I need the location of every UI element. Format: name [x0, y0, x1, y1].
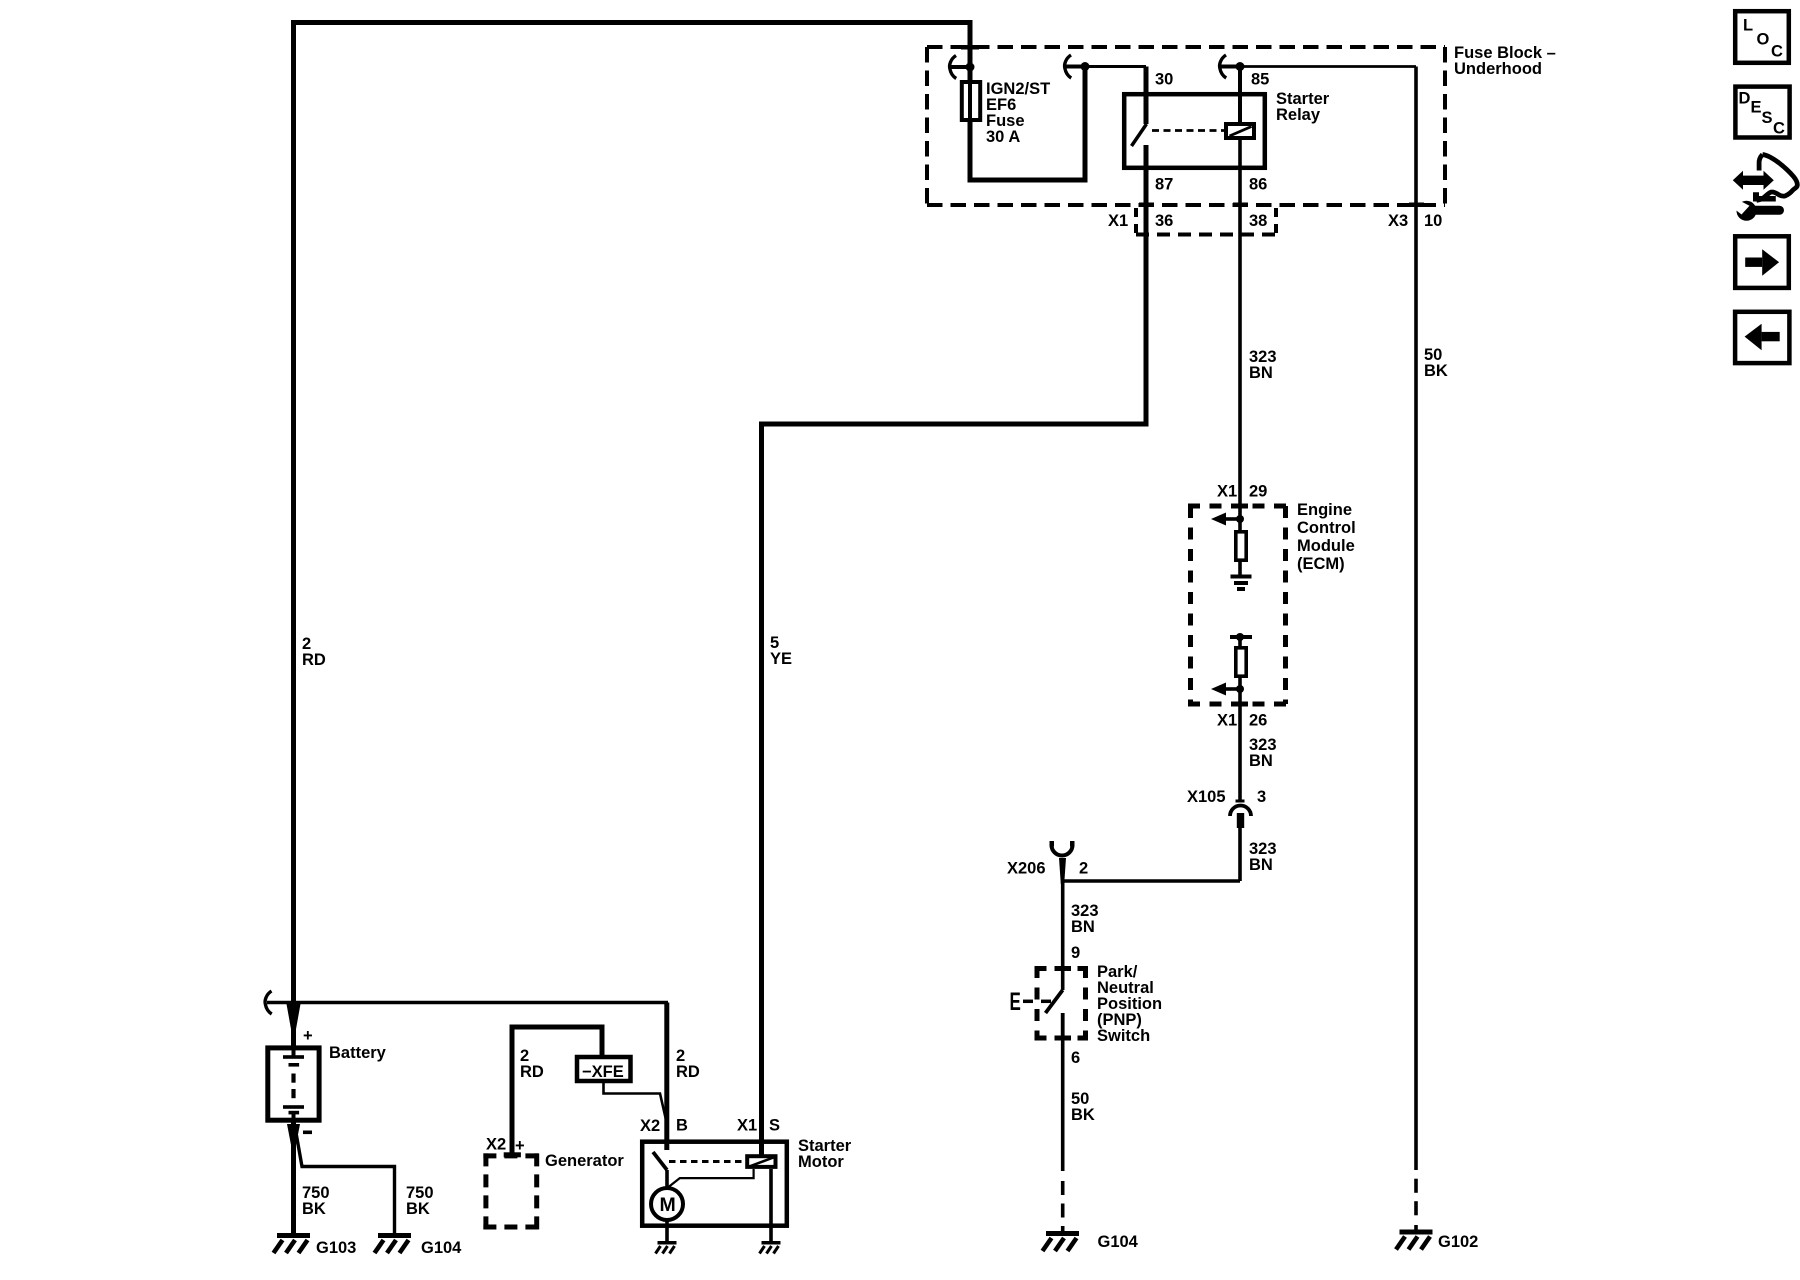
- ECM internal ground: [1231, 575, 1252, 579]
- wire T-bar to resistor 2: [1238, 637, 1242, 647]
- connector X105 wire end tick: [1236, 800, 1245, 803]
- ticks where wires cross fuse block bottom edge: [1139, 203, 1154, 208]
- wire from fuse bottom wrapping to relay pin 30: [970, 67, 1085, 181]
- svg-text:E: E: [1751, 99, 1762, 117]
- svg-text:10: 10: [1424, 212, 1442, 230]
- relay mechanical linkage dashed line: [1152, 129, 1224, 132]
- connector crescent at fuse input: [950, 56, 957, 79]
- wire branch battery negative to G104 : 750 BK: [296, 1130, 395, 1233]
- ground G102: [1396, 1230, 1433, 1250]
- svg-text:Motor: Motor: [798, 1153, 844, 1171]
- fuse IGN2/ST EF6 30 A: [962, 82, 980, 120]
- ECM resistor 1: [1236, 532, 1246, 560]
- connector crescent at fuse output: [1065, 55, 1072, 78]
- svg-text:26: 26: [1249, 712, 1267, 730]
- svg-text:BN: BN: [1249, 856, 1273, 874]
- connector X1 dashed box under relay: [1136, 208, 1277, 237]
- wire PNP to G104 : 50 BK: [1061, 1040, 1065, 1171]
- wire battery positive to starter B: [267, 1001, 668, 1005]
- svg-text:86: 86: [1249, 176, 1267, 194]
- fusible link -XFE box: [577, 1057, 631, 1081]
- battery minus label: [303, 1131, 312, 1135]
- svg-text:S: S: [769, 1117, 780, 1135]
- motor M circle: [651, 1188, 683, 1220]
- ECM resistor 2: [1236, 648, 1246, 676]
- tick where battery feed wire crosses fuse block top edge: [961, 45, 979, 50]
- battery positive taper: [287, 1004, 301, 1043]
- starter motor box: [642, 1142, 787, 1226]
- svg-text:Underhood: Underhood: [1454, 60, 1542, 78]
- wire resistor to internal ground: [1238, 560, 1242, 575]
- svg-text:85: 85: [1251, 71, 1269, 89]
- nav icon LOC box: [1735, 11, 1789, 63]
- junction dot at relay 85: [1236, 62, 1245, 71]
- wire battery negative to G103 : 750 BK: [291, 1122, 296, 1233]
- dashed wire tail to G102: [1414, 1179, 1418, 1193]
- svg-text:G103: G103: [316, 1239, 356, 1257]
- svg-text:RD: RD: [676, 1063, 700, 1081]
- connector X206 female cup: [1052, 845, 1073, 856]
- generator terminal tick: [504, 1152, 521, 1157]
- ECM dashed box: [1188, 506, 1288, 704]
- svg-text:BK: BK: [1424, 362, 1448, 380]
- ground G104 (PNP): [1043, 1231, 1080, 1251]
- connector X206 male taper: [1059, 858, 1066, 884]
- wire coil to case ground: [769, 1169, 773, 1241]
- battery box: [268, 1048, 319, 1120]
- PNP switch blade: [1046, 990, 1063, 1013]
- case ground (solenoid): [760, 1241, 781, 1254]
- svg-text:BK: BK: [406, 1200, 430, 1218]
- PNP switch dashed box: [1035, 966, 1089, 1041]
- svg-text:−XFE: −XFE: [582, 1063, 624, 1081]
- svg-text:E: E: [1010, 988, 1021, 1016]
- svg-text:6: 6: [1071, 1049, 1080, 1067]
- svg-text:RD: RD: [302, 651, 326, 669]
- svg-text:BK: BK: [1071, 1106, 1095, 1124]
- svg-text:YE: YE: [770, 650, 792, 668]
- svg-text:X206: X206: [1007, 860, 1046, 878]
- svg-text:29: 29: [1249, 483, 1267, 501]
- svg-text:B: B: [676, 1117, 688, 1135]
- svg-text:X3: X3: [1388, 212, 1408, 230]
- svg-text:O: O: [1757, 31, 1770, 49]
- relay coil box: [1226, 124, 1254, 138]
- coil second terminal linkage wire: [669, 1169, 754, 1187]
- svg-text:Battery: Battery: [329, 1044, 387, 1062]
- svg-text:BK: BK: [302, 1200, 326, 1218]
- svg-text:+: +: [303, 1027, 313, 1045]
- wire blade to motor: [665, 1170, 669, 1189]
- nav icon forward arrow box: [1735, 236, 1789, 288]
- svg-text:X1: X1: [1217, 483, 1237, 501]
- svg-text:G102: G102: [1438, 1233, 1478, 1251]
- connector crescent at relay 85: [1220, 55, 1227, 78]
- ticks where wire crosses ECM box edges: [1232, 504, 1248, 509]
- ECM input arrow (pin 29): [1225, 517, 1240, 521]
- svg-text:S: S: [1762, 109, 1773, 127]
- svg-text:Engine: Engine: [1297, 501, 1352, 519]
- svg-text:Generator: Generator: [545, 1152, 624, 1170]
- wire X105 to junction : 323 BN: [1238, 828, 1242, 881]
- battery internal plates: [292, 1047, 296, 1056]
- wire into resistor: [1238, 508, 1242, 531]
- double arrow: [1733, 171, 1743, 190]
- svg-text:9: 9: [1071, 944, 1080, 962]
- nav icon shift adjust with wrench: [1730, 155, 1797, 221]
- PNP lower contact wire: [1061, 1013, 1065, 1040]
- svg-text:36: 36: [1155, 212, 1173, 230]
- nav icon back arrow box: [1735, 312, 1789, 363]
- junction dot at fuse output: [1081, 62, 1090, 71]
- wire motor to case ground: [665, 1220, 669, 1241]
- wire relay 86 down to ECM : 323 BN: [1238, 140, 1242, 508]
- svg-text:38: 38: [1249, 212, 1267, 230]
- svg-text:X1: X1: [737, 1117, 757, 1135]
- dashed wire tail to G104: [1061, 1181, 1065, 1195]
- wire X206 down to PNP : 323 BN: [1061, 881, 1065, 990]
- inner step: [1753, 192, 1776, 201]
- svg-text:M: M: [660, 1194, 676, 1216]
- svg-text:30: 30: [1155, 71, 1173, 89]
- shifter outline: [1757, 155, 1798, 201]
- svg-text:X1: X1: [1108, 212, 1128, 230]
- svg-text:BN: BN: [1249, 752, 1273, 770]
- svg-text:X2: X2: [486, 1136, 506, 1154]
- ticks where wire crosses PNP box: [1055, 966, 1072, 971]
- wire fuse output to relay 30: [1085, 65, 1146, 68]
- wire 85 into relay coil: [1238, 67, 1242, 125]
- svg-text:RD: RD: [520, 1063, 544, 1081]
- svg-text:D: D: [1739, 90, 1751, 108]
- wire -XFE output to starter B wire: [604, 1081, 667, 1122]
- svg-text:3: 3: [1257, 788, 1266, 806]
- wire relay 87 down, left, down to starter S : 5 YE: [762, 145, 1147, 1158]
- ECM output arrow (pin 26): [1238, 676, 1242, 704]
- starter solenoid blade: [653, 1152, 667, 1170]
- svg-text:X1: X1: [1217, 712, 1237, 730]
- svg-text:Control: Control: [1297, 519, 1356, 537]
- wire battery positive feed 2 RD (battery + up, across top, down to fuse): [294, 23, 971, 1047]
- junction dot at fuse input: [966, 63, 975, 72]
- connector X105 male terminal: [1237, 813, 1244, 828]
- svg-text:30 A: 30 A: [986, 128, 1020, 146]
- svg-text:C: C: [1773, 120, 1785, 138]
- nav icon DESC box: [1735, 87, 1789, 138]
- ground G104 (battery): [375, 1233, 412, 1253]
- svg-text:G104: G104: [1098, 1233, 1139, 1251]
- wire from 85 junction to X3-10 (50 BK feed): [1240, 65, 1416, 68]
- relay switch blade: [1132, 124, 1147, 146]
- svg-text:Module: Module: [1297, 537, 1355, 555]
- case ground (motor): [656, 1241, 677, 1254]
- ECM driver T-bar: [1230, 635, 1252, 639]
- battery negative taper: [287, 1124, 300, 1158]
- svg-text:(ECM): (ECM): [1297, 555, 1345, 573]
- starter solenoid coil box: [747, 1156, 775, 1167]
- svg-text:C: C: [1771, 43, 1783, 61]
- starter relay box: [1124, 94, 1265, 168]
- starter solenoid linkage dashed: [669, 1160, 745, 1163]
- svg-text:G104: G104: [421, 1239, 462, 1257]
- svg-text:X2: X2: [640, 1117, 660, 1135]
- fuse block underhood dashed box: [927, 47, 1445, 205]
- generator dashed box: [483, 1153, 539, 1229]
- wire generator X2+ up and to -XFE: [512, 1027, 602, 1153]
- wire starter B feed down: [664, 1003, 669, 1151]
- svg-text:87: 87: [1155, 176, 1173, 194]
- svg-text:BN: BN: [1071, 918, 1095, 936]
- svg-text:2: 2: [1079, 860, 1088, 878]
- wire 50 BK right side down: [1414, 67, 1418, 1171]
- svg-text:BN: BN: [1249, 364, 1273, 382]
- svg-text:+: +: [515, 1137, 525, 1155]
- wrench: [1737, 201, 1757, 221]
- connector X105 female arc: [1230, 806, 1251, 817]
- wire horizontal X206 to X105: [1063, 879, 1240, 883]
- wire ECM to X105 : 323 BN: [1238, 704, 1242, 802]
- svg-text:X105: X105: [1187, 788, 1226, 806]
- ground G103: [274, 1233, 311, 1253]
- svg-text:Relay: Relay: [1276, 106, 1321, 124]
- svg-text:Switch: Switch: [1097, 1027, 1150, 1045]
- connector crescent at battery positive: [265, 991, 272, 1014]
- svg-text:L: L: [1743, 17, 1753, 35]
